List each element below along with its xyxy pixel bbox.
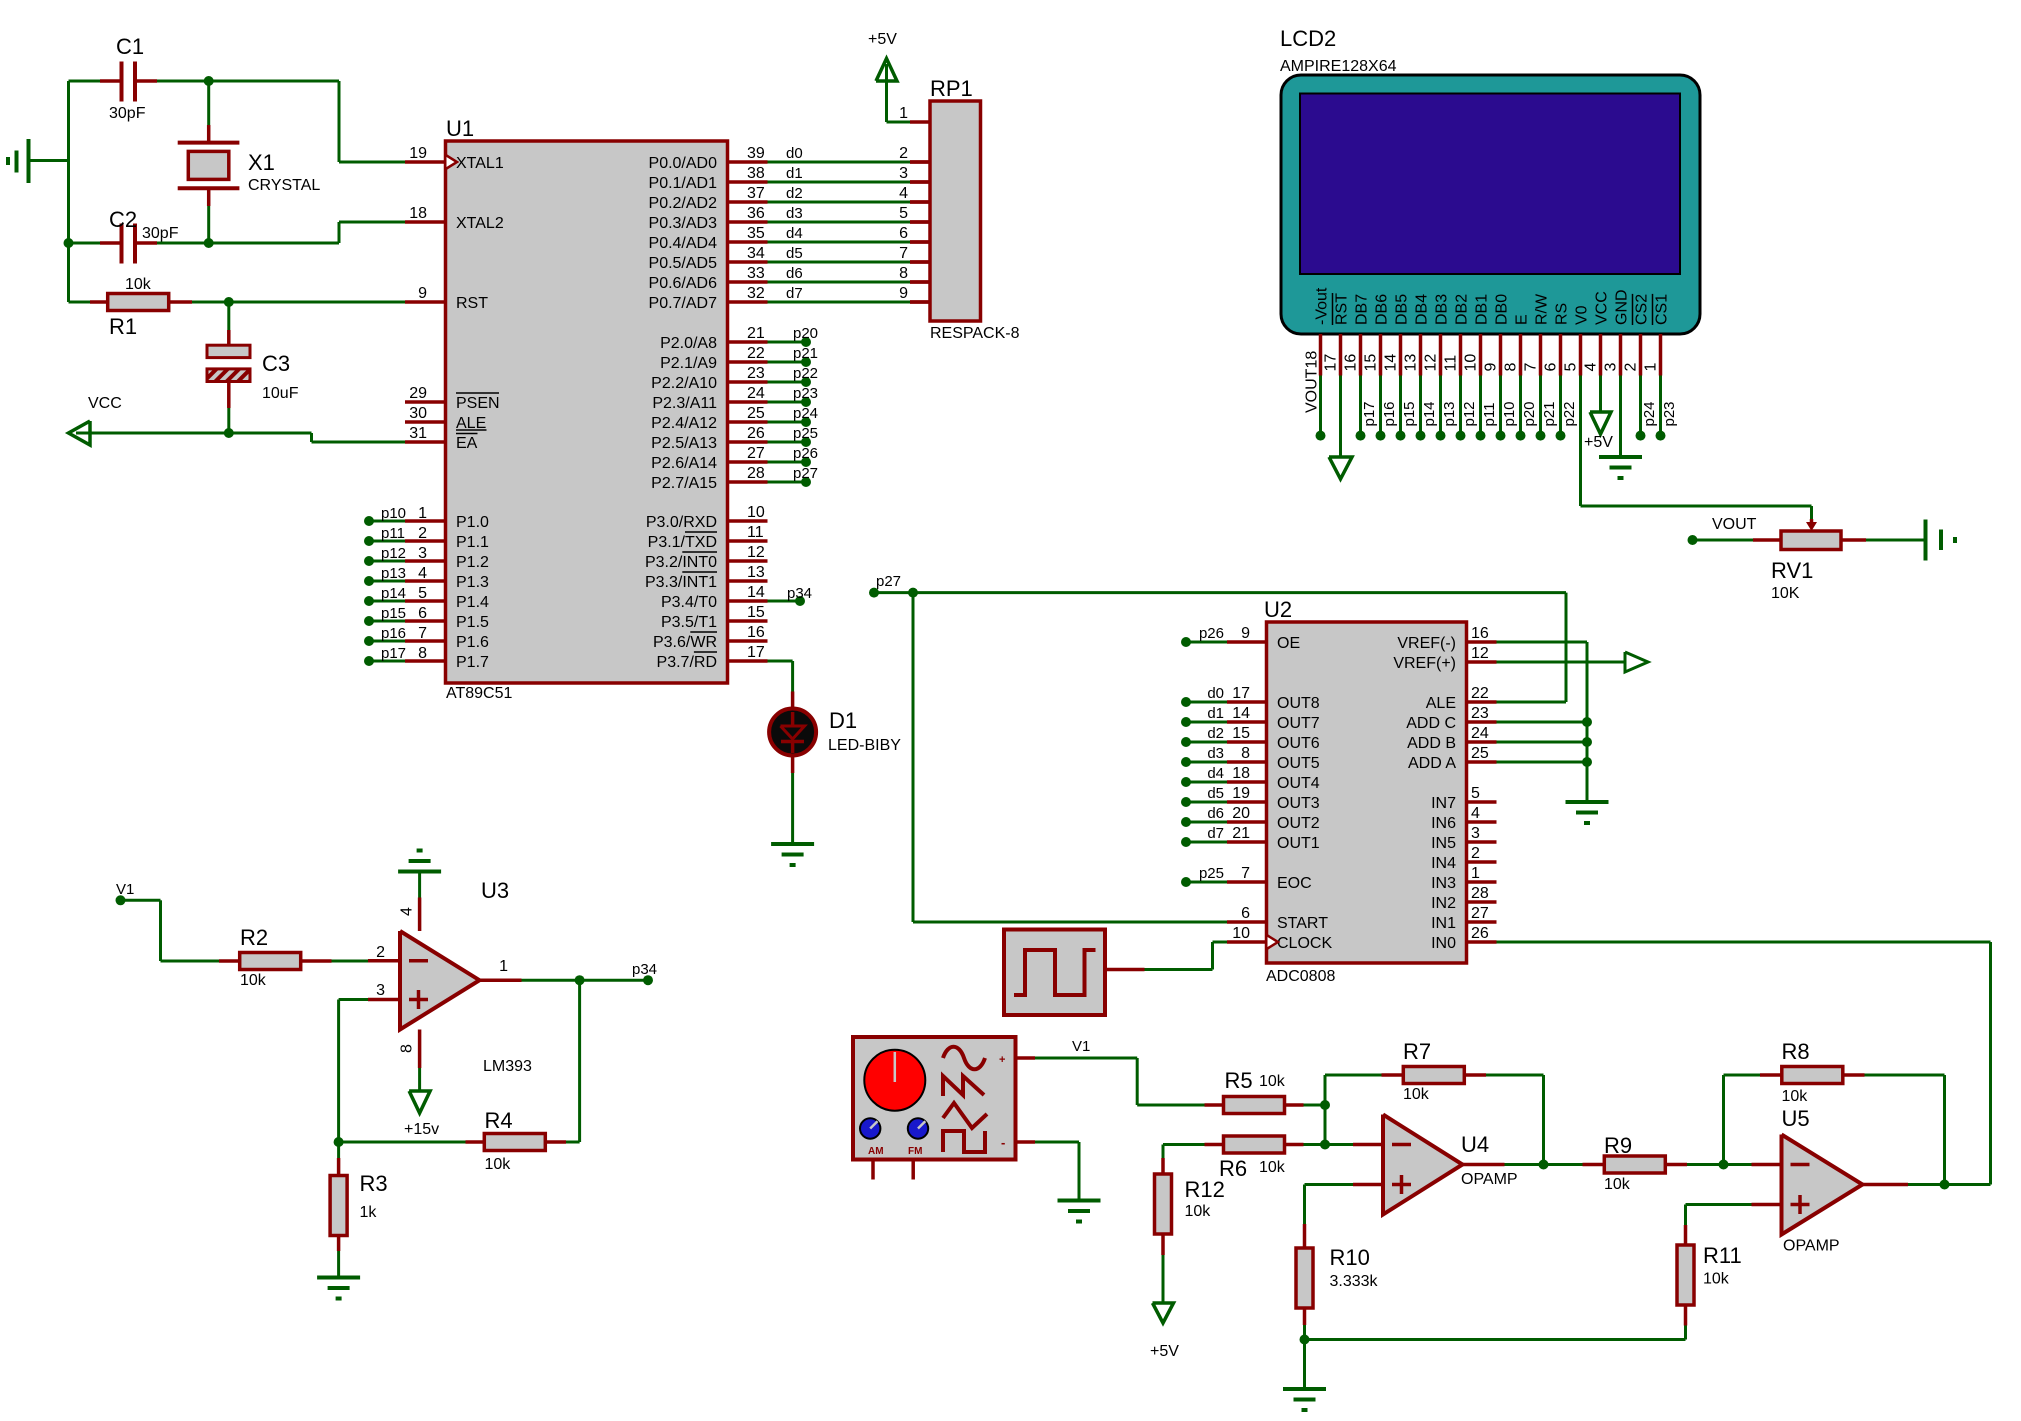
svg-text:CRYSTAL: CRYSTAL — [248, 177, 320, 194]
svg-text:U2: U2 — [1264, 597, 1292, 622]
svg-text:XTAL1: XTAL1 — [456, 155, 504, 172]
svg-text:AM: AM — [868, 1146, 884, 1157]
svg-text:LED-BIBY: LED-BIBY — [828, 737, 901, 754]
svg-text:p15: p15 — [1401, 401, 1418, 426]
svg-text:10k: 10k — [1403, 1086, 1430, 1103]
svg-text:R5: R5 — [1225, 1068, 1253, 1093]
svg-text:DB2: DB2 — [1454, 294, 1471, 325]
svg-text:12: 12 — [747, 544, 765, 561]
svg-text:DB3: DB3 — [1434, 294, 1451, 325]
svg-text:19: 19 — [409, 145, 427, 162]
svg-text:R4: R4 — [485, 1108, 513, 1133]
svg-text:IN3: IN3 — [1431, 875, 1456, 892]
svg-text:33: 33 — [747, 265, 765, 282]
svg-text:IN2: IN2 — [1431, 895, 1456, 912]
svg-text:14: 14 — [1383, 354, 1400, 372]
svg-text:3: 3 — [899, 165, 908, 182]
svg-text:ALE: ALE — [1426, 695, 1456, 712]
svg-text:OE: OE — [1277, 635, 1300, 652]
svg-text:-: - — [1001, 1135, 1005, 1150]
svg-text:VREF(+): VREF(+) — [1393, 655, 1456, 672]
svg-text:11: 11 — [747, 524, 764, 541]
svg-text:CS1: CS1 — [1654, 294, 1671, 325]
svg-text:P0.6/AD6: P0.6/AD6 — [649, 275, 718, 292]
svg-text:p13: p13 — [1441, 401, 1458, 426]
svg-text:p14: p14 — [1421, 401, 1438, 426]
svg-text:3: 3 — [1471, 825, 1480, 842]
svg-text:p20: p20 — [1521, 401, 1538, 426]
svg-text:10: 10 — [1463, 354, 1480, 372]
svg-text:P2.7/A15: P2.7/A15 — [651, 475, 717, 492]
svg-text:p26: p26 — [1199, 625, 1224, 642]
svg-text:1: 1 — [1643, 363, 1660, 372]
svg-text:27: 27 — [1471, 905, 1489, 922]
svg-text:23: 23 — [747, 365, 765, 382]
svg-text:P0.4/AD4: P0.4/AD4 — [649, 235, 718, 252]
svg-text:p26: p26 — [793, 445, 818, 462]
svg-text:OPAMP: OPAMP — [1783, 1238, 1840, 1255]
svg-text:38: 38 — [747, 165, 765, 182]
svg-text:29: 29 — [409, 385, 427, 402]
svg-text:C3: C3 — [262, 351, 290, 376]
svg-text:6: 6 — [418, 605, 427, 622]
svg-text:U1: U1 — [446, 116, 474, 141]
svg-text:7: 7 — [899, 245, 908, 262]
svg-text:P1.1: P1.1 — [456, 534, 489, 551]
svg-text:5: 5 — [899, 205, 908, 222]
svg-text:OUT8: OUT8 — [1277, 695, 1320, 712]
svg-text:1: 1 — [499, 958, 508, 975]
svg-text:36: 36 — [747, 205, 765, 222]
svg-text:XTAL2: XTAL2 — [456, 215, 504, 232]
svg-text:d7: d7 — [1207, 825, 1224, 842]
svg-text:P2.5/A13: P2.5/A13 — [651, 435, 717, 452]
svg-text:p12: p12 — [381, 545, 406, 562]
svg-text:P0.0/AD0: P0.0/AD0 — [649, 155, 718, 172]
svg-text:28: 28 — [1471, 885, 1489, 902]
svg-text:R7: R7 — [1403, 1039, 1431, 1064]
svg-text:P1.5: P1.5 — [456, 614, 489, 631]
svg-text:P3.3/INT1: P3.3/INT1 — [645, 574, 717, 591]
svg-text:8: 8 — [1503, 363, 1520, 372]
svg-text:14: 14 — [1232, 705, 1250, 722]
svg-text:9: 9 — [1241, 625, 1250, 642]
svg-text:10: 10 — [1232, 925, 1250, 942]
svg-text:P3.6/WR: P3.6/WR — [653, 634, 717, 651]
svg-text:7: 7 — [1241, 865, 1250, 882]
svg-text:V1: V1 — [1072, 1038, 1090, 1055]
svg-text:p23: p23 — [793, 385, 818, 402]
svg-text:6: 6 — [1241, 905, 1250, 922]
svg-text:P0.7/AD7: P0.7/AD7 — [649, 295, 718, 312]
svg-text:P1.0: P1.0 — [456, 514, 489, 531]
svg-text:p10: p10 — [381, 505, 406, 522]
svg-text:RESPACK-8: RESPACK-8 — [930, 325, 1020, 342]
svg-text:37: 37 — [747, 185, 765, 202]
svg-text:E: E — [1514, 314, 1531, 325]
svg-text:p23: p23 — [1661, 401, 1678, 426]
svg-text:3: 3 — [1603, 363, 1620, 372]
svg-text:1: 1 — [1471, 865, 1480, 882]
svg-text:R1: R1 — [109, 314, 137, 339]
svg-text:R10: R10 — [1330, 1245, 1370, 1270]
svg-text:4: 4 — [418, 565, 427, 582]
svg-text:IN4: IN4 — [1431, 855, 1456, 872]
svg-text:X1: X1 — [248, 150, 275, 175]
svg-text:p17: p17 — [1361, 401, 1378, 426]
svg-text:OUT2: OUT2 — [1277, 815, 1320, 832]
svg-text:P1.3: P1.3 — [456, 574, 489, 591]
svg-text:RP1: RP1 — [930, 76, 973, 101]
svg-text:2: 2 — [1623, 363, 1640, 372]
svg-text:10k: 10k — [1185, 1203, 1212, 1220]
svg-text:d5: d5 — [786, 245, 803, 262]
svg-text:P0.3/AD3: P0.3/AD3 — [649, 215, 718, 232]
svg-text:17: 17 — [747, 644, 765, 661]
svg-text:AT89C51: AT89C51 — [446, 685, 513, 702]
svg-text:22: 22 — [747, 345, 765, 362]
svg-text:31: 31 — [409, 425, 427, 442]
svg-text:U3: U3 — [481, 878, 509, 903]
svg-text:ADD C: ADD C — [1406, 715, 1456, 732]
svg-text:6: 6 — [1543, 363, 1560, 372]
svg-text:d1: d1 — [786, 165, 803, 182]
svg-text:16: 16 — [1471, 625, 1489, 642]
svg-text:+5V: +5V — [1150, 1343, 1179, 1360]
svg-text:4: 4 — [899, 185, 908, 202]
svg-text:10uF: 10uF — [262, 385, 299, 402]
svg-text:p16: p16 — [381, 625, 406, 642]
svg-text:25: 25 — [747, 405, 765, 422]
svg-text:p27: p27 — [793, 465, 818, 482]
svg-text:p11: p11 — [1481, 403, 1498, 427]
svg-text:+5V: +5V — [868, 31, 897, 48]
svg-text:5: 5 — [418, 585, 427, 602]
svg-text:p13: p13 — [381, 565, 406, 582]
svg-text:+5V: +5V — [1584, 434, 1613, 451]
svg-text:PSEN: PSEN — [456, 395, 500, 412]
svg-text:6: 6 — [899, 225, 908, 242]
svg-text:4: 4 — [1583, 363, 1600, 372]
svg-text:P1.2: P1.2 — [456, 554, 489, 571]
svg-text:RS: RS — [1554, 303, 1571, 325]
svg-text:P3.7/RD: P3.7/RD — [657, 654, 717, 671]
svg-text:OUT7: OUT7 — [1277, 715, 1320, 732]
svg-text:LCD2: LCD2 — [1280, 26, 1336, 51]
svg-text:R8: R8 — [1782, 1039, 1810, 1064]
svg-text:p25: p25 — [1199, 865, 1224, 882]
svg-text:OUT3: OUT3 — [1277, 795, 1320, 812]
svg-text:13: 13 — [1403, 354, 1420, 372]
svg-text:VOUT18: VOUT18 — [1304, 351, 1321, 413]
svg-text:26: 26 — [1471, 925, 1489, 942]
svg-text:VREF(-): VREF(-) — [1397, 635, 1456, 652]
svg-text:P3.5/T1: P3.5/T1 — [661, 614, 717, 631]
svg-text:8: 8 — [1241, 745, 1250, 762]
svg-text:d6: d6 — [786, 265, 803, 282]
svg-text:P3.0/RXD: P3.0/RXD — [646, 514, 717, 531]
svg-text:23: 23 — [1471, 705, 1489, 722]
svg-text:R9: R9 — [1604, 1133, 1632, 1158]
svg-text:V0: V0 — [1574, 305, 1591, 325]
svg-text:10k: 10k — [1604, 1176, 1631, 1193]
svg-text:U5: U5 — [1782, 1106, 1810, 1131]
svg-text:VCC: VCC — [1594, 291, 1611, 325]
svg-text:16: 16 — [1343, 354, 1360, 372]
svg-text:11: 11 — [1443, 355, 1460, 372]
svg-text:CLOCK: CLOCK — [1277, 935, 1332, 952]
svg-text:p10: p10 — [1501, 401, 1518, 426]
svg-text:3: 3 — [418, 545, 427, 562]
svg-text:EA: EA — [456, 435, 478, 452]
svg-text:d2: d2 — [786, 185, 803, 202]
svg-text:25: 25 — [1471, 745, 1489, 762]
svg-text:VOUT: VOUT — [1712, 516, 1757, 533]
svg-text:DB7: DB7 — [1354, 294, 1371, 325]
svg-text:19: 19 — [1232, 785, 1250, 802]
svg-text:18: 18 — [1232, 765, 1250, 782]
svg-text:R2: R2 — [240, 925, 268, 950]
svg-text:8: 8 — [418, 645, 427, 662]
svg-text:IN6: IN6 — [1431, 815, 1456, 832]
svg-text:p14: p14 — [381, 585, 406, 602]
svg-text:P2.4/A12: P2.4/A12 — [651, 415, 717, 432]
svg-text:d4: d4 — [1207, 765, 1224, 782]
svg-text:p27: p27 — [876, 573, 901, 590]
svg-text:d4: d4 — [786, 225, 803, 242]
svg-text:14: 14 — [747, 584, 765, 601]
svg-text:d0: d0 — [786, 145, 803, 162]
svg-text:P0.1/AD1: P0.1/AD1 — [649, 175, 718, 192]
svg-text:1: 1 — [418, 505, 427, 522]
svg-text:VCC: VCC — [88, 395, 122, 412]
svg-text:LM393: LM393 — [483, 1058, 532, 1075]
svg-text:DB0: DB0 — [1494, 294, 1511, 325]
svg-text:+15v: +15v — [404, 1121, 439, 1138]
svg-text:28: 28 — [747, 465, 765, 482]
svg-text:2: 2 — [899, 145, 908, 162]
svg-text:p17: p17 — [381, 645, 406, 662]
svg-text:P0.2/AD2: P0.2/AD2 — [649, 195, 718, 212]
svg-text:22: 22 — [1471, 685, 1489, 702]
svg-text:24: 24 — [747, 385, 765, 402]
svg-text:IN0: IN0 — [1431, 935, 1456, 952]
svg-text:U4: U4 — [1461, 1132, 1489, 1157]
svg-text:1: 1 — [899, 105, 908, 122]
svg-text:p15: p15 — [381, 605, 406, 622]
svg-text:P2.0/A8: P2.0/A8 — [660, 335, 717, 352]
svg-text:8: 8 — [399, 1044, 416, 1053]
svg-text:5: 5 — [1563, 363, 1580, 372]
svg-text:ADD A: ADD A — [1408, 755, 1456, 772]
svg-text:DB6: DB6 — [1374, 294, 1391, 325]
svg-text:P2.6/A14: P2.6/A14 — [651, 455, 717, 472]
svg-text:35: 35 — [747, 225, 765, 242]
svg-text:DB4: DB4 — [1414, 294, 1431, 325]
svg-text:2: 2 — [418, 525, 427, 542]
svg-text:START: START — [1277, 915, 1328, 932]
svg-text:p11: p11 — [381, 525, 405, 542]
svg-text:d7: d7 — [786, 285, 803, 302]
svg-text:p24: p24 — [1641, 401, 1658, 426]
svg-text:3.333k: 3.333k — [1330, 1273, 1379, 1290]
svg-text:20: 20 — [1232, 805, 1250, 822]
svg-text:18: 18 — [409, 205, 427, 222]
svg-text:P3.4/T0: P3.4/T0 — [661, 594, 717, 611]
svg-text:AMPIRE128X64: AMPIRE128X64 — [1280, 58, 1397, 75]
svg-text:d5: d5 — [1207, 785, 1224, 802]
svg-text:P2.3/A11: P2.3/A11 — [652, 395, 717, 412]
svg-text:p16: p16 — [1381, 401, 1398, 426]
svg-text:10K: 10K — [1771, 585, 1800, 602]
svg-text:26: 26 — [747, 425, 765, 442]
svg-text:p20: p20 — [793, 325, 818, 342]
svg-text:P2.2/A10: P2.2/A10 — [651, 375, 717, 392]
svg-text:2: 2 — [1471, 845, 1480, 862]
svg-text:21: 21 — [1232, 825, 1250, 842]
svg-text:RST: RST — [456, 295, 488, 312]
svg-text:4: 4 — [399, 907, 416, 916]
svg-text:d6: d6 — [1207, 805, 1224, 822]
svg-text:RV1: RV1 — [1771, 558, 1813, 583]
svg-text:d3: d3 — [786, 205, 803, 222]
svg-text:10: 10 — [747, 504, 765, 521]
svg-text:10k: 10k — [1782, 1088, 1809, 1105]
svg-text:d3: d3 — [1207, 745, 1224, 762]
svg-text:p22: p22 — [1561, 401, 1578, 426]
svg-text:10k: 10k — [1703, 1271, 1730, 1288]
svg-text:21: 21 — [747, 325, 765, 342]
svg-text:R3: R3 — [360, 1171, 388, 1196]
svg-text:15: 15 — [1232, 725, 1250, 742]
svg-text:30: 30 — [409, 405, 427, 422]
svg-text:15: 15 — [1363, 354, 1380, 372]
svg-text:10k: 10k — [1259, 1159, 1286, 1176]
svg-text:32: 32 — [747, 285, 765, 302]
svg-text:+: + — [999, 1054, 1005, 1066]
svg-text:4: 4 — [1471, 805, 1480, 822]
svg-text:17: 17 — [1323, 354, 1340, 372]
svg-text:9: 9 — [899, 285, 908, 302]
svg-text:P2.1/A9: P2.1/A9 — [660, 355, 717, 372]
svg-text:C2: C2 — [109, 207, 137, 232]
svg-text:P1.4: P1.4 — [456, 594, 489, 611]
svg-text:10k: 10k — [125, 276, 152, 293]
svg-text:d0: d0 — [1207, 685, 1224, 702]
svg-text:39: 39 — [747, 145, 765, 162]
svg-text:p24: p24 — [793, 405, 818, 422]
svg-text:D1: D1 — [829, 708, 857, 733]
svg-text:R/W: R/W — [1534, 293, 1551, 325]
svg-text:10k: 10k — [485, 1156, 512, 1173]
svg-text:R11: R11 — [1703, 1243, 1742, 1268]
svg-text:ADC0808: ADC0808 — [1266, 968, 1335, 985]
svg-text:7: 7 — [418, 625, 427, 642]
svg-text:ADD B: ADD B — [1407, 735, 1456, 752]
svg-text:10k: 10k — [240, 972, 267, 989]
svg-text:p34: p34 — [787, 585, 812, 602]
svg-text:30pF: 30pF — [109, 105, 146, 122]
svg-text:12: 12 — [1423, 354, 1440, 372]
svg-text:34: 34 — [747, 245, 765, 262]
svg-text:FM: FM — [908, 1146, 922, 1157]
svg-text:1k: 1k — [360, 1204, 378, 1221]
svg-text:GND: GND — [1614, 289, 1631, 325]
svg-text:P1.6: P1.6 — [456, 634, 489, 651]
svg-text:OUT4: OUT4 — [1277, 775, 1320, 792]
svg-text:P3.2/INT0: P3.2/INT0 — [645, 554, 717, 571]
svg-text:27: 27 — [747, 445, 765, 462]
svg-text:p25: p25 — [793, 425, 818, 442]
svg-text:9: 9 — [1483, 363, 1500, 372]
svg-text:5: 5 — [1471, 785, 1480, 802]
svg-text:p12: p12 — [1461, 401, 1478, 426]
svg-text:DB5: DB5 — [1394, 294, 1411, 325]
svg-text:OUT1: OUT1 — [1277, 835, 1320, 852]
svg-text:p22: p22 — [793, 365, 818, 382]
svg-text:P1.7: P1.7 — [456, 654, 489, 671]
svg-text:V1: V1 — [116, 881, 134, 898]
svg-text:DB1: DB1 — [1474, 294, 1491, 325]
svg-text:p21: p21 — [1541, 401, 1558, 426]
svg-text:7: 7 — [1523, 363, 1540, 372]
svg-text:IN7: IN7 — [1431, 795, 1456, 812]
svg-text:R12: R12 — [1185, 1177, 1225, 1202]
svg-text:12: 12 — [1471, 645, 1489, 662]
svg-text:P3.1/TXD: P3.1/TXD — [648, 534, 717, 551]
svg-text:CS2: CS2 — [1634, 294, 1651, 325]
svg-text:15: 15 — [747, 604, 765, 621]
svg-text:d2: d2 — [1207, 725, 1224, 742]
svg-text:OPAMP: OPAMP — [1461, 1171, 1518, 1188]
svg-text:EOC: EOC — [1277, 875, 1312, 892]
svg-text:24: 24 — [1471, 725, 1489, 742]
svg-text:9: 9 — [418, 285, 427, 302]
svg-text:IN5: IN5 — [1431, 835, 1456, 852]
svg-text:OUT6: OUT6 — [1277, 735, 1320, 752]
svg-text:17: 17 — [1232, 685, 1250, 702]
svg-text:P0.5/AD5: P0.5/AD5 — [649, 255, 718, 272]
svg-text:3: 3 — [376, 982, 385, 999]
svg-text:OUT5: OUT5 — [1277, 755, 1320, 772]
svg-text:13: 13 — [747, 564, 765, 581]
svg-text:30pF: 30pF — [142, 225, 179, 242]
svg-text:-Vout: -Vout — [1314, 287, 1331, 325]
svg-text:p21: p21 — [793, 345, 818, 362]
svg-text:C1: C1 — [116, 34, 144, 59]
svg-text:d1: d1 — [1207, 705, 1224, 722]
svg-text:p34: p34 — [632, 961, 657, 978]
svg-text:RST: RST — [1334, 293, 1351, 325]
svg-text:IN1: IN1 — [1431, 915, 1456, 932]
svg-text:16: 16 — [747, 624, 765, 641]
svg-text:2: 2 — [376, 944, 385, 961]
svg-text:10k: 10k — [1259, 1073, 1286, 1090]
svg-text:8: 8 — [899, 265, 908, 282]
